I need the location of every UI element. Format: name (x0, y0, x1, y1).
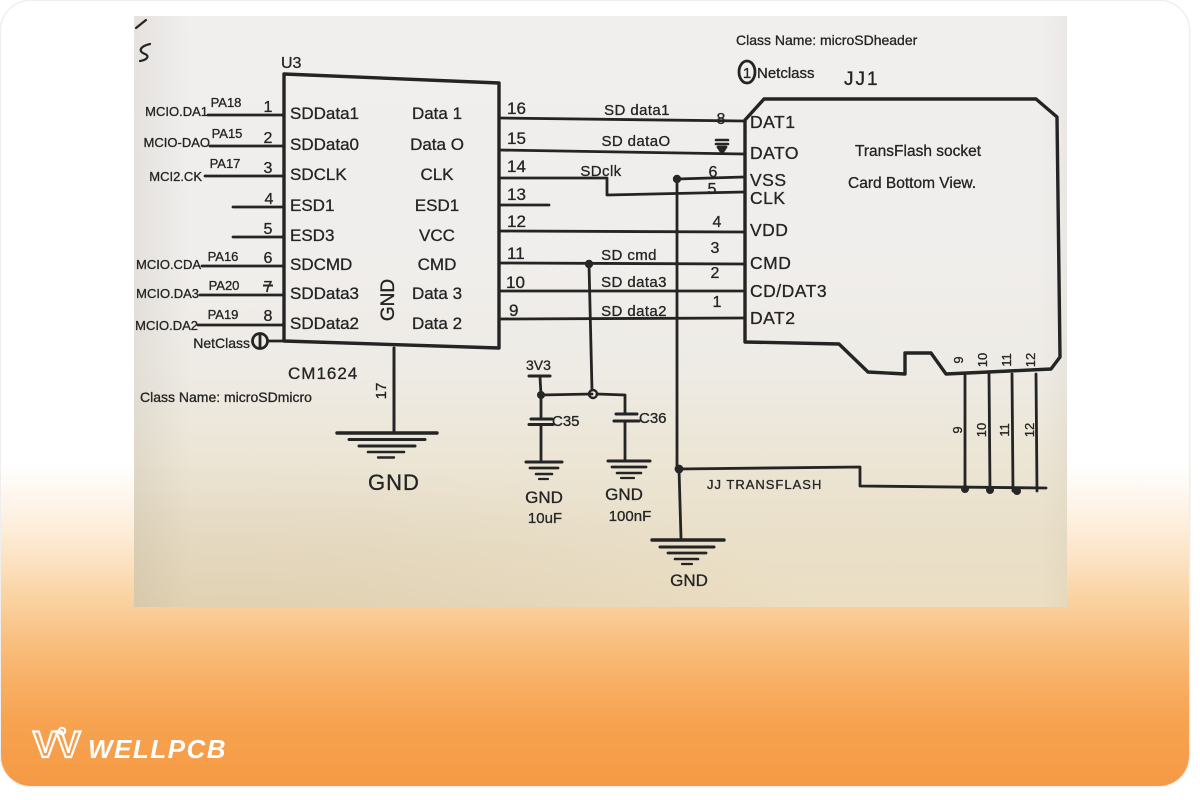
svg-text:1: 1 (264, 99, 273, 116)
svg-text:SD data1: SD data1 (604, 102, 670, 119)
svg-text:GND: GND (525, 488, 563, 507)
svg-text:3V3: 3V3 (526, 357, 551, 373)
svg-text:VDD: VDD (750, 220, 788, 240)
svg-text:Class Name: microSDmicro: Class Name: microSDmicro (140, 389, 312, 405)
svg-text:CLK: CLK (420, 165, 454, 184)
svg-text:PA15: PA15 (212, 126, 243, 141)
svg-text:10: 10 (506, 273, 525, 292)
svg-text:VSS: VSS (750, 170, 787, 190)
svg-text:SDData0: SDData0 (290, 135, 359, 154)
svg-text:Card Bottom View.: Card Bottom View. (848, 175, 976, 192)
svg-text:CMD: CMD (750, 253, 791, 273)
svg-text:CD/DAT3: CD/DAT3 (750, 281, 827, 301)
svg-text:9: 9 (950, 426, 965, 433)
svg-text:MCIO-DAO: MCIO-DAO (144, 135, 210, 150)
svg-text:9: 9 (509, 301, 518, 320)
svg-text:CLK: CLK (750, 188, 786, 208)
svg-text:10: 10 (974, 423, 989, 437)
svg-text:V: V (33, 724, 58, 765)
svg-text:GND: GND (670, 571, 708, 590)
svg-text:11: 11 (999, 353, 1014, 367)
svg-text:SDCLK: SDCLK (290, 165, 347, 184)
svg-text:PA17: PA17 (210, 156, 241, 171)
svg-text:SDData2: SDData2 (290, 314, 359, 333)
svg-text:SDclk: SDclk (580, 163, 621, 180)
svg-text:MCI2.CK: MCI2.CK (149, 169, 202, 184)
svg-text:10uF: 10uF (528, 510, 562, 527)
svg-text:16: 16 (507, 99, 526, 118)
svg-text:SD dataO: SD dataO (601, 133, 670, 150)
svg-text:ESD1: ESD1 (415, 196, 459, 215)
svg-text:JJ1: JJ1 (844, 69, 880, 90)
svg-text:13: 13 (507, 185, 526, 204)
svg-text:WELLPCB: WELLPCB (88, 734, 227, 764)
svg-text:PA18: PA18 (211, 95, 242, 110)
svg-text:5: 5 (264, 221, 273, 238)
svg-text:JJ TRANSFLASH: JJ TRANSFLASH (707, 477, 822, 492)
svg-text:12: 12 (507, 212, 526, 231)
svg-text:10: 10 (975, 353, 990, 367)
svg-text:MCIO.CDA: MCIO.CDA (136, 257, 201, 272)
svg-text:SD cmd: SD cmd (601, 247, 657, 264)
svg-text:MCIO.DA2: MCIO.DA2 (135, 318, 198, 333)
svg-text:DAT2: DAT2 (750, 308, 795, 328)
svg-text:Netclass: Netclass (757, 65, 815, 82)
svg-text:NetClass: NetClass (193, 335, 250, 351)
svg-text:SDCMD: SDCMD (290, 255, 352, 274)
svg-text:3: 3 (264, 160, 273, 177)
svg-text:7: 7 (264, 279, 273, 296)
svg-text:VCC: VCC (419, 226, 455, 245)
svg-text:8: 8 (264, 308, 273, 325)
svg-text:5: 5 (708, 181, 717, 198)
svg-text:GND: GND (378, 279, 399, 321)
svg-text:GND: GND (605, 485, 643, 504)
svg-text:6: 6 (709, 164, 718, 181)
svg-text:4: 4 (713, 214, 722, 231)
svg-text:PA19: PA19 (208, 307, 239, 322)
svg-text:ESD1: ESD1 (290, 196, 334, 215)
svg-text:1: 1 (713, 294, 722, 311)
svg-text:Data 2: Data 2 (412, 314, 462, 333)
svg-text:PA16: PA16 (208, 249, 239, 264)
svg-text:MCIO.DA3: MCIO.DA3 (136, 286, 199, 301)
svg-text:SD data3: SD data3 (601, 274, 667, 291)
svg-text:C36: C36 (639, 410, 667, 427)
svg-text:11: 11 (507, 244, 525, 263)
svg-text:SDData3: SDData3 (290, 284, 359, 303)
svg-text:MCIO.DA1: MCIO.DA1 (145, 104, 208, 119)
svg-text:CMD: CMD (418, 255, 457, 274)
svg-text:DAT1: DAT1 (750, 112, 795, 132)
svg-text:Data O: Data O (410, 135, 464, 154)
svg-text:TransFlash socket: TransFlash socket (855, 143, 982, 160)
svg-text:2: 2 (264, 130, 273, 147)
svg-text:2: 2 (711, 265, 720, 282)
svg-text:SD data2: SD data2 (601, 303, 667, 320)
svg-text:6: 6 (264, 250, 273, 267)
svg-text:C35: C35 (552, 413, 580, 430)
svg-text:1: 1 (743, 65, 751, 82)
svg-text:4: 4 (265, 191, 274, 208)
svg-text:Class Name: microSDheader: Class Name: microSDheader (736, 32, 918, 48)
svg-text:U3: U3 (281, 55, 302, 72)
svg-text:11: 11 (997, 423, 1012, 437)
svg-text:Data 3: Data 3 (412, 284, 462, 303)
svg-text:14: 14 (507, 157, 526, 176)
svg-text:ESD3: ESD3 (290, 226, 334, 245)
svg-text:12: 12 (1023, 353, 1038, 367)
svg-text:SDData1: SDData1 (290, 104, 359, 123)
svg-text:3: 3 (711, 240, 720, 257)
svg-text:PA20: PA20 (209, 278, 240, 293)
svg-text:GND: GND (368, 470, 420, 495)
svg-text:Data 1: Data 1 (412, 104, 462, 123)
svg-text:15: 15 (507, 129, 526, 148)
svg-text:12: 12 (1022, 423, 1037, 437)
svg-text:DATO: DATO (750, 143, 799, 163)
svg-text:100nF: 100nF (609, 508, 652, 525)
svg-text:9: 9 (951, 356, 966, 363)
svg-text:17: 17 (373, 383, 390, 400)
svg-text:8: 8 (717, 111, 726, 128)
svg-text:CM1624: CM1624 (288, 364, 358, 383)
